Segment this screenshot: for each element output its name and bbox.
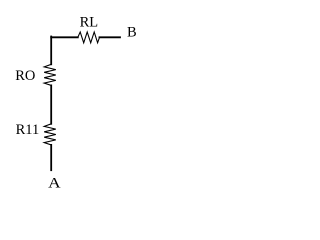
svg-text:B: B xyxy=(127,25,137,41)
svg-text:R11: R11 xyxy=(16,122,40,138)
svg-text:A: A xyxy=(48,175,61,191)
svg-text:RO: RO xyxy=(15,68,35,84)
svg-text:RL: RL xyxy=(80,14,99,30)
